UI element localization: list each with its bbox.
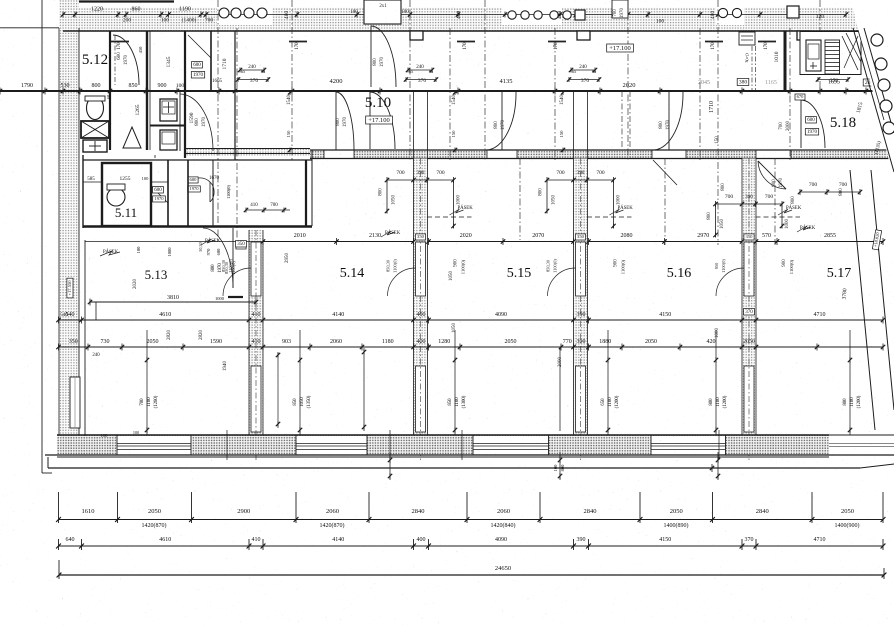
window dim cluster x=455 <box>454 330 456 435</box>
sink cross fixture <box>83 140 107 152</box>
level mark +17.100 top <box>607 44 634 52</box>
wall 5.11 block top line b <box>186 153 310 155</box>
toilet room below 5.12 <box>109 91 111 150</box>
door 5.11b <box>190 178 214 202</box>
washbasin 1 <box>160 99 177 121</box>
wall corridor upper / main line <box>0 90 894 92</box>
dim row C interior widths <box>59 319 884 321</box>
white corner over band right <box>851 0 894 163</box>
door corridor lobby x=370 <box>369 92 371 149</box>
ramp diagonal right upper <box>853 28 894 172</box>
shower room <box>146 91 148 150</box>
wall inner face left <box>78 28 80 452</box>
door room 5.16 leaf below <box>653 160 677 185</box>
pasek label 5.14/5.15 <box>427 216 472 218</box>
window bottom 296-367 <box>296 436 367 454</box>
dim row D window positions <box>59 346 884 348</box>
column square top 2 <box>787 6 799 18</box>
dim row A left part <box>85 241 263 243</box>
dim row room 5.17 widths <box>756 241 883 243</box>
washbasin 2 <box>160 130 177 150</box>
window opening in wall <box>744 366 754 432</box>
window opening in wall <box>251 366 261 432</box>
window dim cluster x=147 <box>146 330 148 435</box>
left wall lower labels <box>67 278 73 298</box>
wall post x=577 <box>577 31 590 40</box>
axis x=410 <box>409 0 411 160</box>
door corridor 2 <box>335 92 337 150</box>
wall outer face left <box>58 28 60 452</box>
columns circles top <box>219 8 229 18</box>
room 5.13 details <box>95 302 97 320</box>
washing machine <box>81 121 109 138</box>
toilet 5.11 <box>107 188 125 206</box>
dim total 24650 <box>59 574 884 576</box>
door corridor 5.16 <box>668 92 670 150</box>
axis x=775 <box>774 158 776 245</box>
wall corridor bottom band <box>310 150 324 159</box>
axis x=450 <box>449 28 451 160</box>
axis x=665 <box>664 158 666 245</box>
window opening in wall <box>416 366 426 432</box>
door opening in wall <box>416 242 426 296</box>
column square top 1 <box>575 10 585 20</box>
door opening in wall <box>744 242 754 296</box>
dim 1000 label left of wall1 <box>228 296 243 298</box>
wall 5.11 block top line a <box>186 148 310 150</box>
door top second <box>188 35 211 58</box>
wall 5.11 right <box>305 160 307 226</box>
dim cluster room 5.17 upper <box>800 191 860 193</box>
door corridor 5.15 <box>501 92 503 150</box>
shaft slot top <box>612 0 628 18</box>
opening top 3 <box>716 3 744 25</box>
ramp diagonal right lower <box>850 170 875 430</box>
opening top 2 <box>502 3 562 25</box>
level mark +17.100 corridor <box>366 116 393 124</box>
axis x=628 <box>627 0 629 160</box>
wall strip x=742 <box>742 159 756 436</box>
wall interior left suite <box>150 125 186 127</box>
room 5.18 kitchen counter <box>800 32 861 75</box>
wall corridor bottom bottom line <box>310 158 894 160</box>
window bottom 117-191 <box>117 436 191 454</box>
cut mark top <box>69 0 174 2</box>
wall exterior left <box>59 0 79 452</box>
window bottom 473-548.5 <box>473 436 549 454</box>
door 5.12 <box>113 35 139 85</box>
axis x=790 <box>789 28 791 160</box>
dishwasher cross <box>842 36 858 70</box>
wall 5.11 bottom <box>83 225 312 228</box>
dim vertical lines rooms <box>363 348 365 431</box>
dimension block bottom <box>59 519 884 521</box>
axis x=218 <box>217 0 219 240</box>
axis x=292 <box>291 0 293 160</box>
edge line top left <box>0 27 63 29</box>
door arc wall x=573.5 <box>548 268 576 296</box>
opening top 1 <box>217 3 272 25</box>
door 5.11 <box>151 186 168 203</box>
washbasin room <box>184 91 186 158</box>
room 5.12 walls <box>109 31 111 91</box>
door 5.18 interior <box>800 100 802 148</box>
shaft box top <box>364 0 401 24</box>
dim cluster wall 5.15/5.16 <box>547 179 614 181</box>
window dim cluster x=300 <box>299 330 301 435</box>
dim line vertical left x=42 <box>41 0 43 473</box>
dim row room 5.15 widths <box>429 241 574 243</box>
window opening in wall <box>576 366 586 432</box>
columns circles right edge <box>871 34 883 46</box>
wall 5.11 top <box>83 159 312 161</box>
wall strip x=573.5 <box>574 159 588 436</box>
dim row interior widths bottom <box>59 545 884 547</box>
pasek label 5.16/5.17 <box>756 216 801 218</box>
dim line top y=15 <box>63 14 846 16</box>
axis x=520 <box>519 158 521 240</box>
balcony outline <box>57 456 829 458</box>
door corridor 1 <box>179 92 181 151</box>
door opening in wall <box>576 242 586 296</box>
axis x=237 <box>236 28 238 240</box>
ramp extra lines <box>858 30 884 120</box>
door opening in wall <box>251 242 261 296</box>
axis x=555 <box>554 28 556 160</box>
duct top <box>739 32 755 45</box>
dim cluster wall 5.14/5.15 <box>387 179 454 181</box>
axis x=700 <box>699 28 701 160</box>
wall corridor bottom top line <box>310 149 894 151</box>
door room 5.13 from 5.11 <box>232 228 234 288</box>
wall post x=797 <box>797 31 810 40</box>
door arc wall x=742 <box>716 268 744 296</box>
axis x=820 <box>819 0 821 91</box>
wall bottom exterior band <box>57 435 829 455</box>
wall 5.18 left <box>784 31 787 91</box>
window bottom 651-725.5 <box>651 436 726 454</box>
dim 3810 room 5.13 <box>90 301 256 303</box>
sink <box>806 40 821 71</box>
wall top exterior face <box>63 30 894 32</box>
wall face left interior <box>84 240 86 436</box>
window left wall <box>70 377 80 428</box>
dim ticks below band <box>389 452 391 480</box>
window dim cluster x=608 <box>607 330 609 435</box>
dim cluster wall 5.16/5.17 <box>716 203 783 205</box>
door room 5.17 <box>758 161 786 189</box>
axis x=485 <box>484 0 486 160</box>
dim row room 5.14 widths <box>263 241 414 243</box>
room 5.11 box <box>102 163 151 226</box>
stove hatched <box>825 40 840 74</box>
toilet 1 <box>87 97 104 120</box>
door arc wall x=413.5 <box>388 268 416 296</box>
window dim cluster x=850 <box>849 330 851 435</box>
wall hatch top band <box>63 8 894 32</box>
door arc wall x=249 <box>223 268 251 296</box>
wall 5.11 block top hatch <box>186 149 310 156</box>
axis x=718 <box>717 0 719 245</box>
wall strip x=249 <box>249 230 263 435</box>
wall post x=410 <box>410 31 423 40</box>
pasek label 5.15/5.16 <box>587 216 632 218</box>
window dim cluster x=716 <box>715 330 717 435</box>
dim row room 5.16 widths <box>589 241 743 243</box>
door below shaft <box>370 26 372 87</box>
wall strip x=413.5 <box>414 159 428 436</box>
